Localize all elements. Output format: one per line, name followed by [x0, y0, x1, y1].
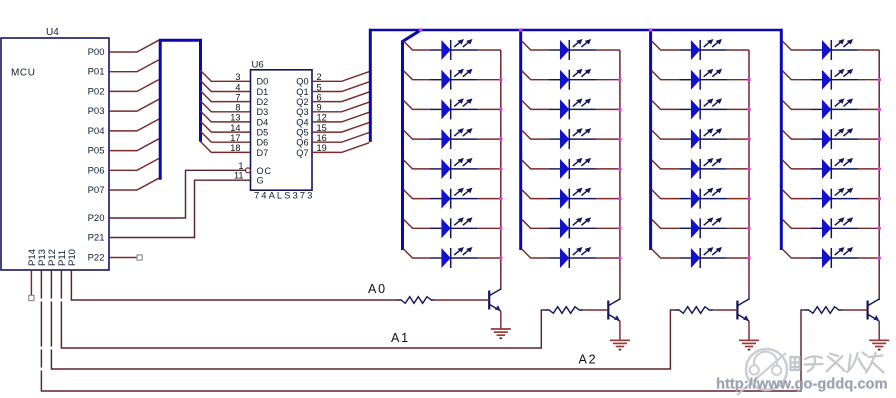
wire bus col2 to LED row2 — [522, 71, 549, 80]
wire P02 to data bus — [109, 80, 159, 92]
LED column 1 row 5 — [430, 158, 477, 179]
svg-text:D6: D6 — [257, 138, 269, 148]
svg-text:D5: D5 — [257, 128, 269, 138]
junction dots column 1 — [499, 78, 503, 260]
wire Q7 (pin 19) to output bus — [312, 143, 369, 153]
wire bus to D7 (pin 18) — [201, 142, 251, 153]
wire LED col2 row1 cathode to collector line — [596, 49, 620, 51]
wire LED col4 row4 cathode to collector line — [858, 138, 879, 140]
LED column 2 row 1 — [549, 39, 596, 60]
wire Q5 (pin 15) to output bus — [312, 122, 369, 132]
svg-text:D3: D3 — [257, 107, 269, 117]
wire LED col2 row8 cathode to collector line — [596, 257, 620, 259]
wire LED col2 row5 cathode to collector line — [596, 168, 620, 170]
wire net A3 (P13) — [41, 270, 804, 391]
watermark chinese characters — [791, 353, 884, 373]
latch U6 74ALS373 — [251, 60, 315, 202]
cathode collector wire column 2 — [619, 50, 621, 300]
LED column 3 row 2 — [680, 69, 727, 90]
svg-text:P21: P21 — [88, 233, 105, 244]
LED column 3 row 1 — [680, 39, 727, 60]
watermark logo — [737, 349, 787, 395]
wire R4 to Q4 base — [843, 309, 868, 311]
LED column 4 row 7 — [811, 217, 858, 238]
svg-text:MCU: MCU — [11, 68, 36, 79]
wire Q0 (pin 2) to output bus — [312, 72, 369, 82]
LED column 2 row 4 — [549, 128, 596, 149]
wire LED col3 row4 cathode to collector line — [727, 138, 749, 140]
wire bus to D6 (pin 17) — [201, 131, 251, 142]
wire bus col4 to LED row3 — [782, 100, 810, 109]
LED column 2 row 3 — [549, 98, 596, 119]
wire bus col3 to LED row2 — [652, 71, 680, 80]
wire bus col4 to LED row7 — [782, 219, 810, 228]
svg-text:Q1: Q1 — [296, 87, 308, 97]
no-connect square P14 — [29, 295, 34, 300]
svg-text:U4: U4 — [46, 27, 59, 38]
svg-text:D7: D7 — [257, 148, 269, 158]
junction on top bus — [419, 28, 423, 32]
LED column 3 row 3 — [680, 98, 727, 119]
svg-text:P10: P10 — [67, 249, 78, 266]
svg-text:Q7: Q7 — [296, 148, 308, 158]
junction on top bus — [519, 28, 523, 32]
wire LED col3 row3 cathode to collector line — [727, 108, 749, 110]
wire bus col2 to LED row5 — [522, 160, 549, 169]
transistor Q3 — [737, 299, 749, 321]
wire bus col2 to LED row1 — [522, 41, 549, 50]
LED column 3 row 4 — [680, 128, 727, 149]
wire bus col2 to LED row4 — [522, 130, 549, 139]
wire bus col3 to LED row3 — [652, 100, 680, 109]
transistor Q2 — [608, 299, 620, 321]
wire LED col4 row2 cathode to collector line — [858, 79, 879, 81]
svg-text:4: 4 — [235, 82, 240, 92]
wire bus col2 to LED row7 — [522, 219, 549, 228]
LED column 2 row 5 — [549, 158, 596, 179]
wire bus to D0 (pin 3) — [201, 71, 251, 82]
wire P20 to OC — [109, 170, 246, 218]
wire LED col1 row3 cathode to collector line — [477, 108, 500, 110]
wire bus to D4 (pin 13) — [201, 111, 251, 122]
wire bus col1 to LED row4 — [404, 130, 431, 139]
wire P14 stub — [30, 270, 32, 295]
LED column 4 row 8 — [811, 247, 858, 268]
wire P03 to data bus — [109, 99, 159, 111]
wire P06 to data bus — [109, 159, 159, 171]
wire Q2 emitter to ground — [619, 321, 621, 340]
wire net A0 (P10) — [71, 270, 397, 300]
wire LED col4 row3 cathode to collector line — [858, 108, 879, 110]
svg-text:8: 8 — [235, 103, 240, 113]
svg-text:17: 17 — [230, 133, 240, 143]
wire LED col3 row7 cathode to collector line — [727, 227, 749, 229]
svg-text:P20: P20 — [88, 213, 105, 224]
LED column 1 row 7 — [430, 217, 477, 238]
svg-text:15: 15 — [317, 123, 327, 133]
svg-text:16: 16 — [317, 133, 327, 143]
wire LED col4 row6 cathode to collector line — [858, 198, 879, 200]
resistor R4 — [805, 307, 843, 314]
output bus vertical — [369, 29, 372, 142]
svg-text:7: 7 — [235, 92, 240, 102]
LED column 2 row 8 — [549, 247, 596, 268]
wire bus col3 to LED row8 — [652, 249, 680, 258]
wire bus col3 to LED row6 — [652, 190, 680, 199]
resistor R1 — [397, 297, 435, 304]
wire LED col3 row1 cathode to collector line — [727, 49, 749, 51]
svg-text:D4: D4 — [257, 117, 269, 127]
wire LED col1 row8 cathode to collector line — [477, 257, 500, 259]
svg-text:5: 5 — [317, 82, 322, 92]
ground Q1 — [491, 329, 511, 338]
anode bus column 1 — [403, 30, 421, 250]
svg-text:P02: P02 — [88, 86, 105, 97]
wire bus col3 to LED row1 — [652, 41, 680, 50]
wire Q6 (pin 16) to output bus — [312, 133, 369, 143]
svg-text:D0: D0 — [257, 77, 269, 87]
wire Q2 collector — [619, 298, 621, 301]
svg-text:1: 1 — [238, 161, 243, 171]
wire LED col2 row4 cathode to collector line — [596, 138, 620, 140]
wire LED col2 row7 cathode to collector line — [596, 227, 620, 229]
svg-text:2: 2 — [317, 72, 322, 82]
wire bus col1 to LED row8 — [404, 249, 431, 258]
wire P07 to data bus — [109, 178, 159, 190]
wire P01 to data bus — [109, 60, 159, 72]
wire bus to D1 (pin 4) — [201, 81, 251, 92]
junction on top bus — [649, 28, 653, 32]
wire LED col1 row2 cathode to collector line — [477, 79, 500, 81]
LED column 3 row 6 — [680, 188, 727, 209]
wire Q4 emitter to ground — [878, 321, 880, 340]
wire bus col1 to LED row3 — [404, 100, 431, 109]
LED column 2 row 2 — [549, 69, 596, 90]
LED column 3 row 5 — [680, 158, 727, 179]
wire LED col2 row2 cathode to collector line — [596, 79, 620, 81]
svg-text:A0: A0 — [368, 282, 387, 296]
ground Q2 — [610, 340, 630, 349]
anode bus column 3 — [649, 30, 652, 250]
wire R3 to Q3 base — [713, 309, 737, 311]
svg-text:Q6: Q6 — [296, 138, 308, 148]
wire LED col3 row5 cathode to collector line — [727, 168, 749, 170]
svg-text:D1: D1 — [257, 87, 269, 97]
cathode collector wire column 1 — [500, 50, 502, 290]
svg-text:U6: U6 — [252, 60, 264, 71]
wire Q1 collector — [500, 288, 502, 291]
svg-text:http://www.go-gddq.com: http://www.go-gddq.com — [716, 377, 888, 393]
LED column 1 row 2 — [430, 69, 477, 90]
wire bus col4 to LED row8 — [782, 249, 810, 258]
wire P05 to data bus — [109, 139, 159, 151]
wire LED col3 row6 cathode to collector line — [727, 198, 749, 200]
resistor R2 — [545, 307, 583, 314]
wire Q1 (pin 5) to output bus — [312, 82, 369, 92]
wire bus col4 to LED row5 — [782, 160, 810, 169]
svg-text:12: 12 — [317, 113, 327, 123]
wire LED col1 row5 cathode to collector line — [477, 168, 500, 170]
LED column 4 row 2 — [811, 69, 858, 90]
LED column 4 row 3 — [811, 98, 858, 119]
wire bus col1 to LED row6 — [404, 190, 431, 199]
wire bus to D5 (pin 14) — [201, 121, 251, 132]
anode bus column 2 — [519, 30, 522, 250]
wire bus to D3 (pin 8) — [201, 101, 251, 112]
junction dots column 2 — [618, 78, 622, 260]
MCU U4 — [1, 27, 109, 270]
wire bus col1 to LED row1 — [404, 41, 431, 50]
wire bus col3 to LED row4 — [652, 130, 680, 139]
LED column 4 row 4 — [811, 128, 858, 149]
wire LED col4 row8 cathode to collector line — [858, 257, 879, 259]
wire Q1 emitter to ground — [500, 311, 502, 329]
LED column 1 row 6 — [430, 188, 477, 209]
wire bus col1 to LED row5 — [404, 160, 431, 169]
wire bus col4 to LED row4 — [782, 130, 810, 139]
svg-text:P03: P03 — [88, 106, 105, 117]
LED column 2 row 6 — [549, 188, 596, 209]
svg-text:P22: P22 — [88, 253, 105, 264]
svg-text:P01: P01 — [88, 67, 105, 78]
LED column 4 row 5 — [811, 158, 858, 179]
wire Q3 collector — [748, 298, 750, 301]
cathode collector wire column 3 — [748, 50, 750, 300]
svg-text:18: 18 — [230, 143, 240, 153]
cathode collector wire column 4 — [878, 50, 880, 300]
LED column 2 row 7 — [549, 217, 596, 238]
LED column 4 row 6 — [811, 188, 858, 209]
svg-text:Q4: Q4 — [296, 117, 308, 127]
wire net A1 (P11) — [61, 270, 545, 348]
wire bus col4 to LED row2 — [782, 71, 810, 80]
data bus MCU side — [160, 40, 200, 180]
wire bus to D2 (pin 7) — [201, 91, 251, 102]
junction dots column 4 — [877, 78, 881, 260]
svg-text:P04: P04 — [88, 126, 105, 137]
svg-text:9: 9 — [317, 103, 322, 113]
wire LED col4 row1 cathode to collector line — [858, 49, 879, 51]
wire P00 to data bus — [109, 40, 159, 52]
wire bus col1 to LED row2 — [404, 71, 431, 80]
anode bus column 4 — [780, 29, 783, 250]
wire bus col2 to LED row6 — [522, 190, 549, 199]
wire LED col1 row1 cathode to collector line — [477, 49, 500, 51]
wire LED col3 row2 cathode to collector line — [727, 79, 749, 81]
svg-text:3: 3 — [235, 72, 240, 82]
svg-text:Q5: Q5 — [296, 128, 308, 138]
wire LED col2 row3 cathode to collector line — [596, 108, 620, 110]
svg-text:P06: P06 — [88, 165, 105, 176]
svg-text:A1: A1 — [391, 331, 410, 345]
LED column 3 row 8 — [680, 247, 727, 268]
svg-text:Q2: Q2 — [296, 97, 308, 107]
LED column 1 row 4 — [430, 128, 477, 149]
svg-text:D2: D2 — [257, 97, 269, 107]
transistor Q1 — [489, 289, 501, 311]
wire LED col4 row7 cathode to collector line — [858, 227, 879, 229]
svg-text:Q3: Q3 — [296, 107, 308, 117]
wire Q3 (pin 9) to output bus — [312, 102, 369, 112]
svg-text:6: 6 — [317, 92, 322, 102]
wire LED col4 row5 cathode to collector line — [858, 168, 879, 170]
top bus horizontal — [369, 29, 781, 32]
LED column 1 row 1 — [430, 39, 477, 60]
wire Q2 (pin 6) to output bus — [312, 92, 369, 102]
wire bus col1 to LED row7 — [404, 219, 431, 228]
svg-text:74ALS373: 74ALS373 — [254, 191, 314, 202]
wire bus col3 to LED row7 — [652, 219, 680, 228]
wire bus col4 to LED row6 — [782, 190, 810, 199]
wire net A2 (P12) — [51, 270, 675, 369]
LED column 3 row 7 — [680, 217, 727, 238]
svg-text:P07: P07 — [88, 185, 105, 196]
wire Q4 (pin 12) to output bus — [312, 112, 369, 122]
LED column 1 row 8 — [430, 247, 477, 268]
wire Q3 emitter to ground — [748, 321, 750, 340]
wire bus col4 to LED row1 — [782, 41, 810, 50]
transistor Q4 — [868, 299, 880, 321]
ground Q4 — [869, 340, 889, 349]
LED column 1 row 3 — [430, 98, 477, 119]
wire R2 to Q2 base — [583, 309, 608, 311]
wire bus col3 to LED row5 — [652, 160, 680, 169]
wire bus col2 to LED row8 — [522, 249, 549, 258]
svg-text:G: G — [257, 176, 264, 186]
svg-text:11: 11 — [234, 170, 244, 180]
ground Q3 — [739, 340, 759, 349]
wire Q4 collector — [878, 298, 880, 301]
OC inversion bubble — [246, 168, 251, 173]
svg-text:OC: OC — [257, 166, 272, 176]
crossing gaps — [40, 299, 62, 371]
wire LED col2 row6 cathode to collector line — [596, 198, 620, 200]
svg-text:A2: A2 — [579, 353, 598, 367]
wire LED col3 row8 cathode to collector line — [727, 257, 749, 259]
resistor R3 — [675, 307, 713, 314]
svg-text:19: 19 — [317, 143, 327, 153]
wire P21 to G — [109, 180, 251, 237]
LED column 4 row 1 — [811, 39, 858, 60]
wire R1 to Q1 base — [435, 299, 489, 301]
svg-text:P05: P05 — [88, 146, 105, 157]
svg-text:13: 13 — [230, 113, 240, 123]
wire LED col1 row6 cathode to collector line — [477, 198, 500, 200]
junction dots column 3 — [747, 78, 751, 260]
svg-text:P00: P00 — [88, 47, 105, 58]
wire LED col1 row7 cathode to collector line — [477, 227, 500, 229]
svg-text:Q0: Q0 — [296, 77, 308, 87]
wire LED col1 row4 cathode to collector line — [477, 138, 500, 140]
wire bus col2 to LED row3 — [522, 100, 549, 109]
svg-text:14: 14 — [230, 123, 240, 133]
no-connect square P22 — [137, 255, 142, 260]
wire P22 stub — [109, 257, 137, 259]
wire P04 to data bus — [109, 119, 159, 131]
